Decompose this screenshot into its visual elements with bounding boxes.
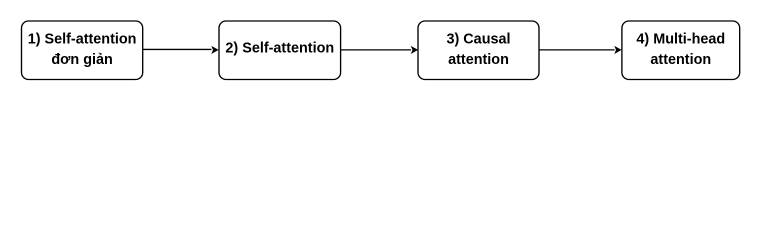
- arrow 2: box2 to box3: [341, 46, 419, 54]
- arrow 1: box1 to box2: [143, 46, 219, 54]
- box 1: Self-attention đơn giản: [22, 21, 143, 80]
- arrow 3: box3 to box4: [539, 46, 622, 54]
- svg-text:3) Causal: 3) Causal: [447, 32, 511, 48]
- box 4: Multi-head attention: [622, 21, 740, 80]
- svg-text:đơn giản: đơn giản: [51, 52, 112, 68]
- box 3: Causal attention: [418, 21, 539, 80]
- box 2: Self-attention: [219, 21, 341, 80]
- svg-text:attention: attention: [448, 52, 509, 68]
- svg-text:2) Self-attention: 2) Self-attention: [225, 40, 334, 56]
- svg-text:4) Multi-head: 4) Multi-head: [636, 32, 725, 48]
- svg-text:1) Self-attention: 1) Self-attention: [28, 32, 137, 48]
- svg-text:attention: attention: [650, 52, 711, 68]
